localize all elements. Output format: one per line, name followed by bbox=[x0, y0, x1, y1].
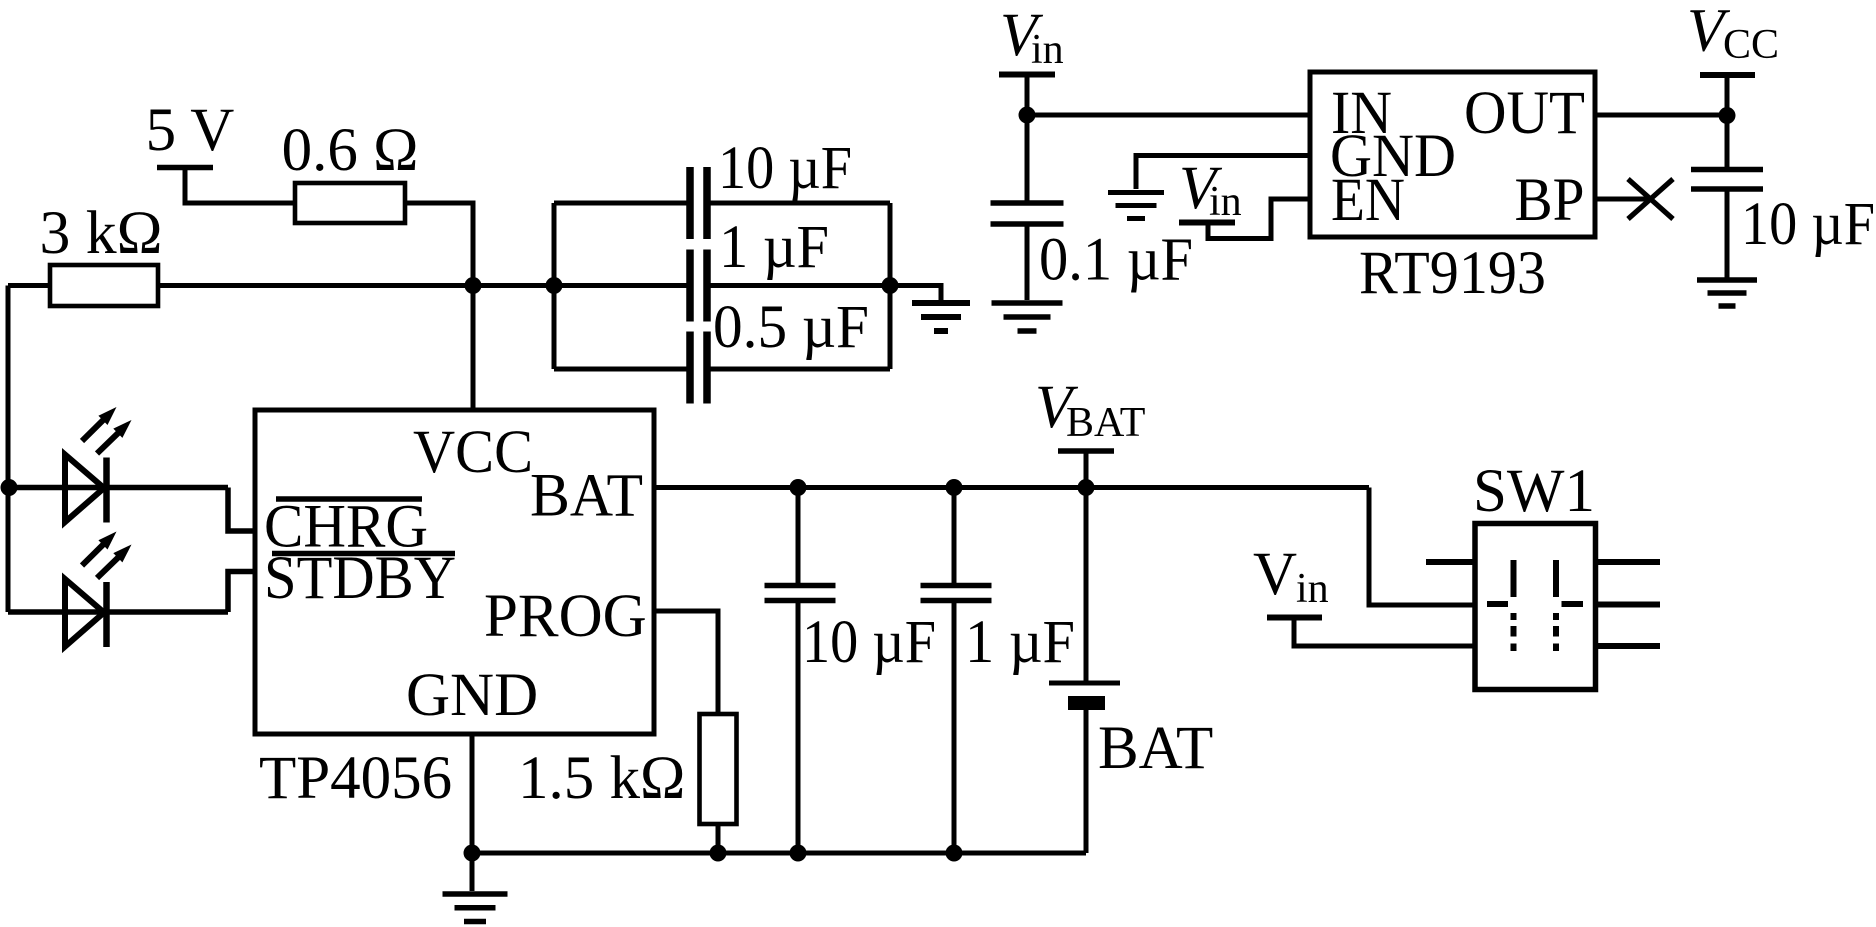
terminal V_in enable bbox=[1179, 220, 1235, 226]
terminal V_in input bbox=[999, 72, 1055, 78]
svg-text:1.5 kΩ: 1.5 kΩ bbox=[518, 745, 685, 812]
capacitor C7 10uF bbox=[1725, 75, 1730, 167]
node K bbox=[1078, 479, 1095, 496]
svg-text:EN: EN bbox=[1331, 167, 1405, 234]
ground main bbox=[470, 853, 475, 891]
ground cap bank bbox=[912, 300, 970, 306]
LED D1 bbox=[65, 455, 104, 523]
wire R2 to node A bbox=[158, 283, 473, 288]
node J bbox=[946, 479, 963, 496]
node M bbox=[1719, 107, 1736, 124]
wire left edge to R2 bbox=[8, 283, 52, 288]
switch SW1 box bbox=[1475, 524, 1596, 690]
overline STDBY bbox=[272, 551, 455, 557]
wire LED rail bbox=[6, 286, 11, 613]
svg-text:CC: CC bbox=[1723, 22, 1779, 68]
pin stub SW1 left bbox=[1426, 559, 1475, 565]
wire R1 to node A bbox=[405, 203, 473, 283]
ground C6 bbox=[992, 300, 1063, 306]
power terminal 5V bbox=[157, 165, 213, 171]
svg-text:0.1 µF: 0.1 µF bbox=[1039, 227, 1193, 294]
svg-text:OUT: OUT bbox=[1464, 80, 1585, 147]
svg-text:in: in bbox=[1209, 179, 1242, 225]
svg-text:10 µF: 10 µF bbox=[1741, 191, 1875, 258]
svg-text:5 V: 5 V bbox=[146, 97, 235, 164]
capacitor C5 1uF bbox=[952, 488, 957, 584]
wire GND pin rt bbox=[1136, 156, 1310, 190]
wire D2 anode bbox=[8, 609, 107, 615]
svg-text:RT9193: RT9193 bbox=[1359, 240, 1546, 307]
capacitor bank left rail bbox=[552, 203, 557, 369]
svg-text:V: V bbox=[1253, 541, 1297, 608]
capacitor C3 0.5uF bbox=[554, 367, 687, 372]
svg-text:10 µF: 10 µF bbox=[802, 609, 936, 676]
svg-text:PROG: PROG bbox=[484, 583, 647, 650]
wire BP bbox=[1595, 197, 1650, 202]
wire R3 to ground rail bbox=[716, 824, 721, 853]
node L bbox=[1019, 107, 1036, 124]
node B bbox=[546, 277, 563, 294]
wire V_in drop bbox=[1025, 75, 1030, 201]
wire OUT to node M bbox=[1595, 113, 1727, 118]
pin stub SW1 right 3 bbox=[1596, 643, 1660, 649]
terminal V_CC bbox=[1700, 72, 1755, 78]
capacitor C1 10uF bbox=[554, 201, 687, 206]
IC U2 RT9193 bbox=[1310, 72, 1595, 237]
IC U1 TP4056 bbox=[255, 410, 654, 734]
svg-text:STDBY: STDBY bbox=[264, 545, 456, 612]
node D bbox=[1, 479, 18, 496]
svg-text:GND: GND bbox=[406, 662, 538, 729]
node A bbox=[465, 277, 482, 294]
wire node C to ground bbox=[890, 286, 941, 302]
terminal V_in switch bbox=[1267, 615, 1322, 621]
svg-text:BAT: BAT bbox=[1098, 715, 1213, 782]
node G bbox=[790, 845, 807, 862]
pin stub SW1 right 1 bbox=[1596, 559, 1660, 565]
node I bbox=[790, 479, 807, 496]
wire PROG to R3 bbox=[654, 611, 718, 716]
wire VCC feed bbox=[471, 286, 476, 413]
svg-text:3 kΩ: 3 kΩ bbox=[40, 200, 163, 267]
svg-text:VCC: VCC bbox=[413, 419, 533, 486]
wire EN bbox=[1208, 199, 1310, 239]
switch SW1 pole 1 bbox=[1511, 560, 1517, 597]
svg-text:in: in bbox=[1296, 566, 1329, 612]
svg-text:1 µF: 1 µF bbox=[965, 609, 1075, 676]
svg-text:in: in bbox=[1031, 27, 1064, 73]
svg-text:10 µF: 10 µF bbox=[718, 135, 852, 202]
LED D2 bbox=[65, 579, 104, 647]
ground RT9193 bbox=[1108, 190, 1164, 195]
svg-text:0.5 µF: 0.5 µF bbox=[713, 294, 869, 361]
svg-text:BAT: BAT bbox=[530, 463, 643, 530]
svg-text:1 µF: 1 µF bbox=[719, 214, 829, 281]
node F bbox=[710, 845, 727, 862]
terminal V_BAT bbox=[1058, 448, 1114, 454]
capacitor C2 1uF bbox=[554, 283, 687, 288]
wire D2 cathode to STDBY pin bbox=[107, 609, 229, 615]
battery BT1 BAT bbox=[1084, 488, 1089, 681]
svg-text:0.6 Ω: 0.6 Ω bbox=[282, 117, 419, 184]
pin stub SW1 right 2 bbox=[1596, 602, 1660, 608]
ground rail bbox=[472, 851, 1086, 856]
resistor R1 0.6 ohm bbox=[295, 183, 405, 223]
wire BAT to SW1 bbox=[1369, 488, 1475, 606]
wire D1 anode bbox=[9, 485, 107, 491]
no-connect X bbox=[1628, 179, 1673, 219]
resistor R3 1.5 kohm bbox=[700, 714, 737, 824]
svg-text:SW1: SW1 bbox=[1473, 458, 1595, 525]
resistor R2 3 kohm bbox=[50, 265, 158, 306]
wire node A to node B bbox=[473, 283, 554, 288]
wire V_in to SW1 bbox=[1294, 618, 1475, 647]
svg-text:BP: BP bbox=[1515, 167, 1585, 234]
node E bbox=[464, 845, 481, 862]
node H bbox=[946, 845, 963, 862]
wire GND pin bbox=[470, 734, 475, 853]
wire BAT net bbox=[654, 485, 1369, 490]
wire D1 cathode to CHRG pin bbox=[107, 485, 229, 491]
wire node L to IN pin bbox=[1027, 113, 1310, 118]
node C bbox=[882, 277, 899, 294]
capacitor C6 0.1uF bbox=[991, 200, 1064, 206]
capacitor bank right rail bbox=[888, 203, 893, 369]
svg-text:TP4056: TP4056 bbox=[259, 745, 452, 812]
overline CHRG bbox=[276, 496, 422, 502]
wire 5V to R1 bbox=[185, 165, 297, 203]
capacitor C4 10uF bbox=[796, 488, 801, 584]
ground C7 bbox=[1697, 277, 1757, 283]
switch SW1 pole 2 bbox=[1553, 560, 1559, 597]
svg-text:BAT: BAT bbox=[1066, 400, 1145, 446]
